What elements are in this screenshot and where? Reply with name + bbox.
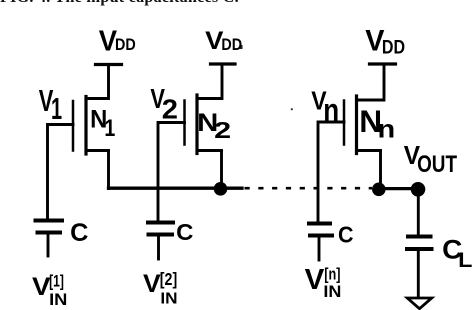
capacitor C2 [148, 223, 173, 260]
svg-text:n: n [323, 92, 339, 128]
label C 2 [176, 219, 193, 245]
speck left margin [240, 45, 243, 49]
svg-text:2: 2 [162, 94, 178, 125]
node VOUT [411, 182, 426, 197]
power VDD rail 1 bar [96, 63, 122, 66]
cropped caption text at top edge [0, 0, 240, 9]
svg-text:V: V [143, 270, 161, 298]
label VIN[2] [143, 269, 178, 308]
svg-text:[2]: [2] [160, 269, 177, 289]
transistor N1 [73, 97, 109, 155]
label C 1 [70, 220, 88, 247]
svg-text:1: 1 [104, 115, 115, 142]
svg-text:IN: IN [49, 291, 67, 309]
label V2 [150, 83, 178, 124]
svg-text:n: n [378, 117, 396, 144]
label V1 [39, 84, 62, 126]
wire output bus dashed segment [245, 187, 373, 190]
label N1 [90, 105, 115, 142]
wire source N2 down to node [220, 151, 223, 189]
wire gate N1 to capacitor C1 [48, 125, 74, 219]
speck near branch n [291, 108, 293, 110]
svg-text:[1]: [1] [49, 273, 64, 291]
label VIN[1] [32, 273, 67, 309]
svg-text:C: C [70, 220, 88, 247]
power VDD rail n bar [370, 62, 396, 65]
svg-text:2: 2 [214, 117, 231, 143]
svg-text:IN: IN [160, 291, 177, 308]
wire node to VOUT node [378, 187, 418, 190]
label N2 [197, 110, 231, 143]
wire VDDn to drain Nn [357, 64, 385, 100]
svg-text:[n]: [n] [324, 264, 340, 283]
capacitor Cn [309, 224, 332, 261]
svg-text:C: C [176, 219, 193, 245]
svg-text:IN: IN [323, 283, 341, 301]
svg-text:V: V [305, 264, 325, 296]
label VDD 2 [205, 28, 242, 55]
wire VDD1 to drain N1 [86, 65, 109, 99]
svg-text:DD: DD [382, 38, 405, 59]
capacitor C1 [36, 221, 63, 257]
ground [407, 298, 431, 309]
wire VOUT node down to load capacitor [417, 189, 420, 234]
svg-text:L: L [458, 249, 472, 272]
node junction Nn source [372, 183, 386, 197]
power VDD rail 2 bar [211, 62, 236, 65]
wire source Nn down to node [379, 151, 382, 189]
wire gate Nn to capacitor Cn [318, 122, 344, 222]
wire output bus solid left segment [109, 187, 243, 190]
svg-text:C: C [338, 222, 354, 248]
node junction N2 source [214, 182, 228, 196]
label VOUT [404, 140, 458, 178]
wire source N1 down to output bus [107, 151, 110, 189]
label VIN[n] [305, 264, 342, 301]
wire VDD2 to drain N2 [197, 64, 222, 99]
label Vn [311, 87, 339, 127]
wire gate N2 to capacitor C2 [158, 123, 185, 223]
label C n [338, 222, 354, 248]
label VDD n [365, 25, 405, 59]
label CL [442, 235, 472, 272]
transistor N2 [185, 95, 222, 154]
label Nn [359, 103, 395, 143]
label VDD 1 [99, 25, 136, 57]
svg-text:OUT: OUT [417, 151, 457, 178]
capacitor CL [407, 237, 432, 297]
svg-text:DD: DD [221, 35, 242, 54]
svg-text:DD: DD [115, 35, 136, 54]
transistor Nn [344, 96, 381, 154]
svg-text:1: 1 [51, 91, 62, 126]
